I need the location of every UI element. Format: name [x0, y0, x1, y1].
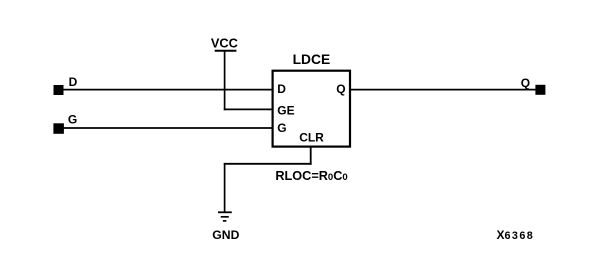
svg-text:D: D [277, 82, 286, 96]
svg-text:G: G [68, 113, 77, 127]
svg-text:D: D [69, 75, 78, 89]
svg-text:RLOC=R0C0: RLOC=R0C0 [275, 169, 347, 183]
svg-text:GND: GND [212, 228, 239, 242]
svg-text:Q: Q [521, 76, 530, 90]
svg-text:CLR: CLR [299, 131, 324, 145]
svg-text:X6368: X6368 [497, 228, 535, 242]
svg-text:VCC: VCC [211, 35, 238, 50]
svg-text:LDCE: LDCE [293, 52, 331, 67]
svg-text:G: G [277, 121, 286, 135]
svg-text:GE: GE [277, 104, 294, 118]
svg-text:Q: Q [336, 82, 345, 96]
